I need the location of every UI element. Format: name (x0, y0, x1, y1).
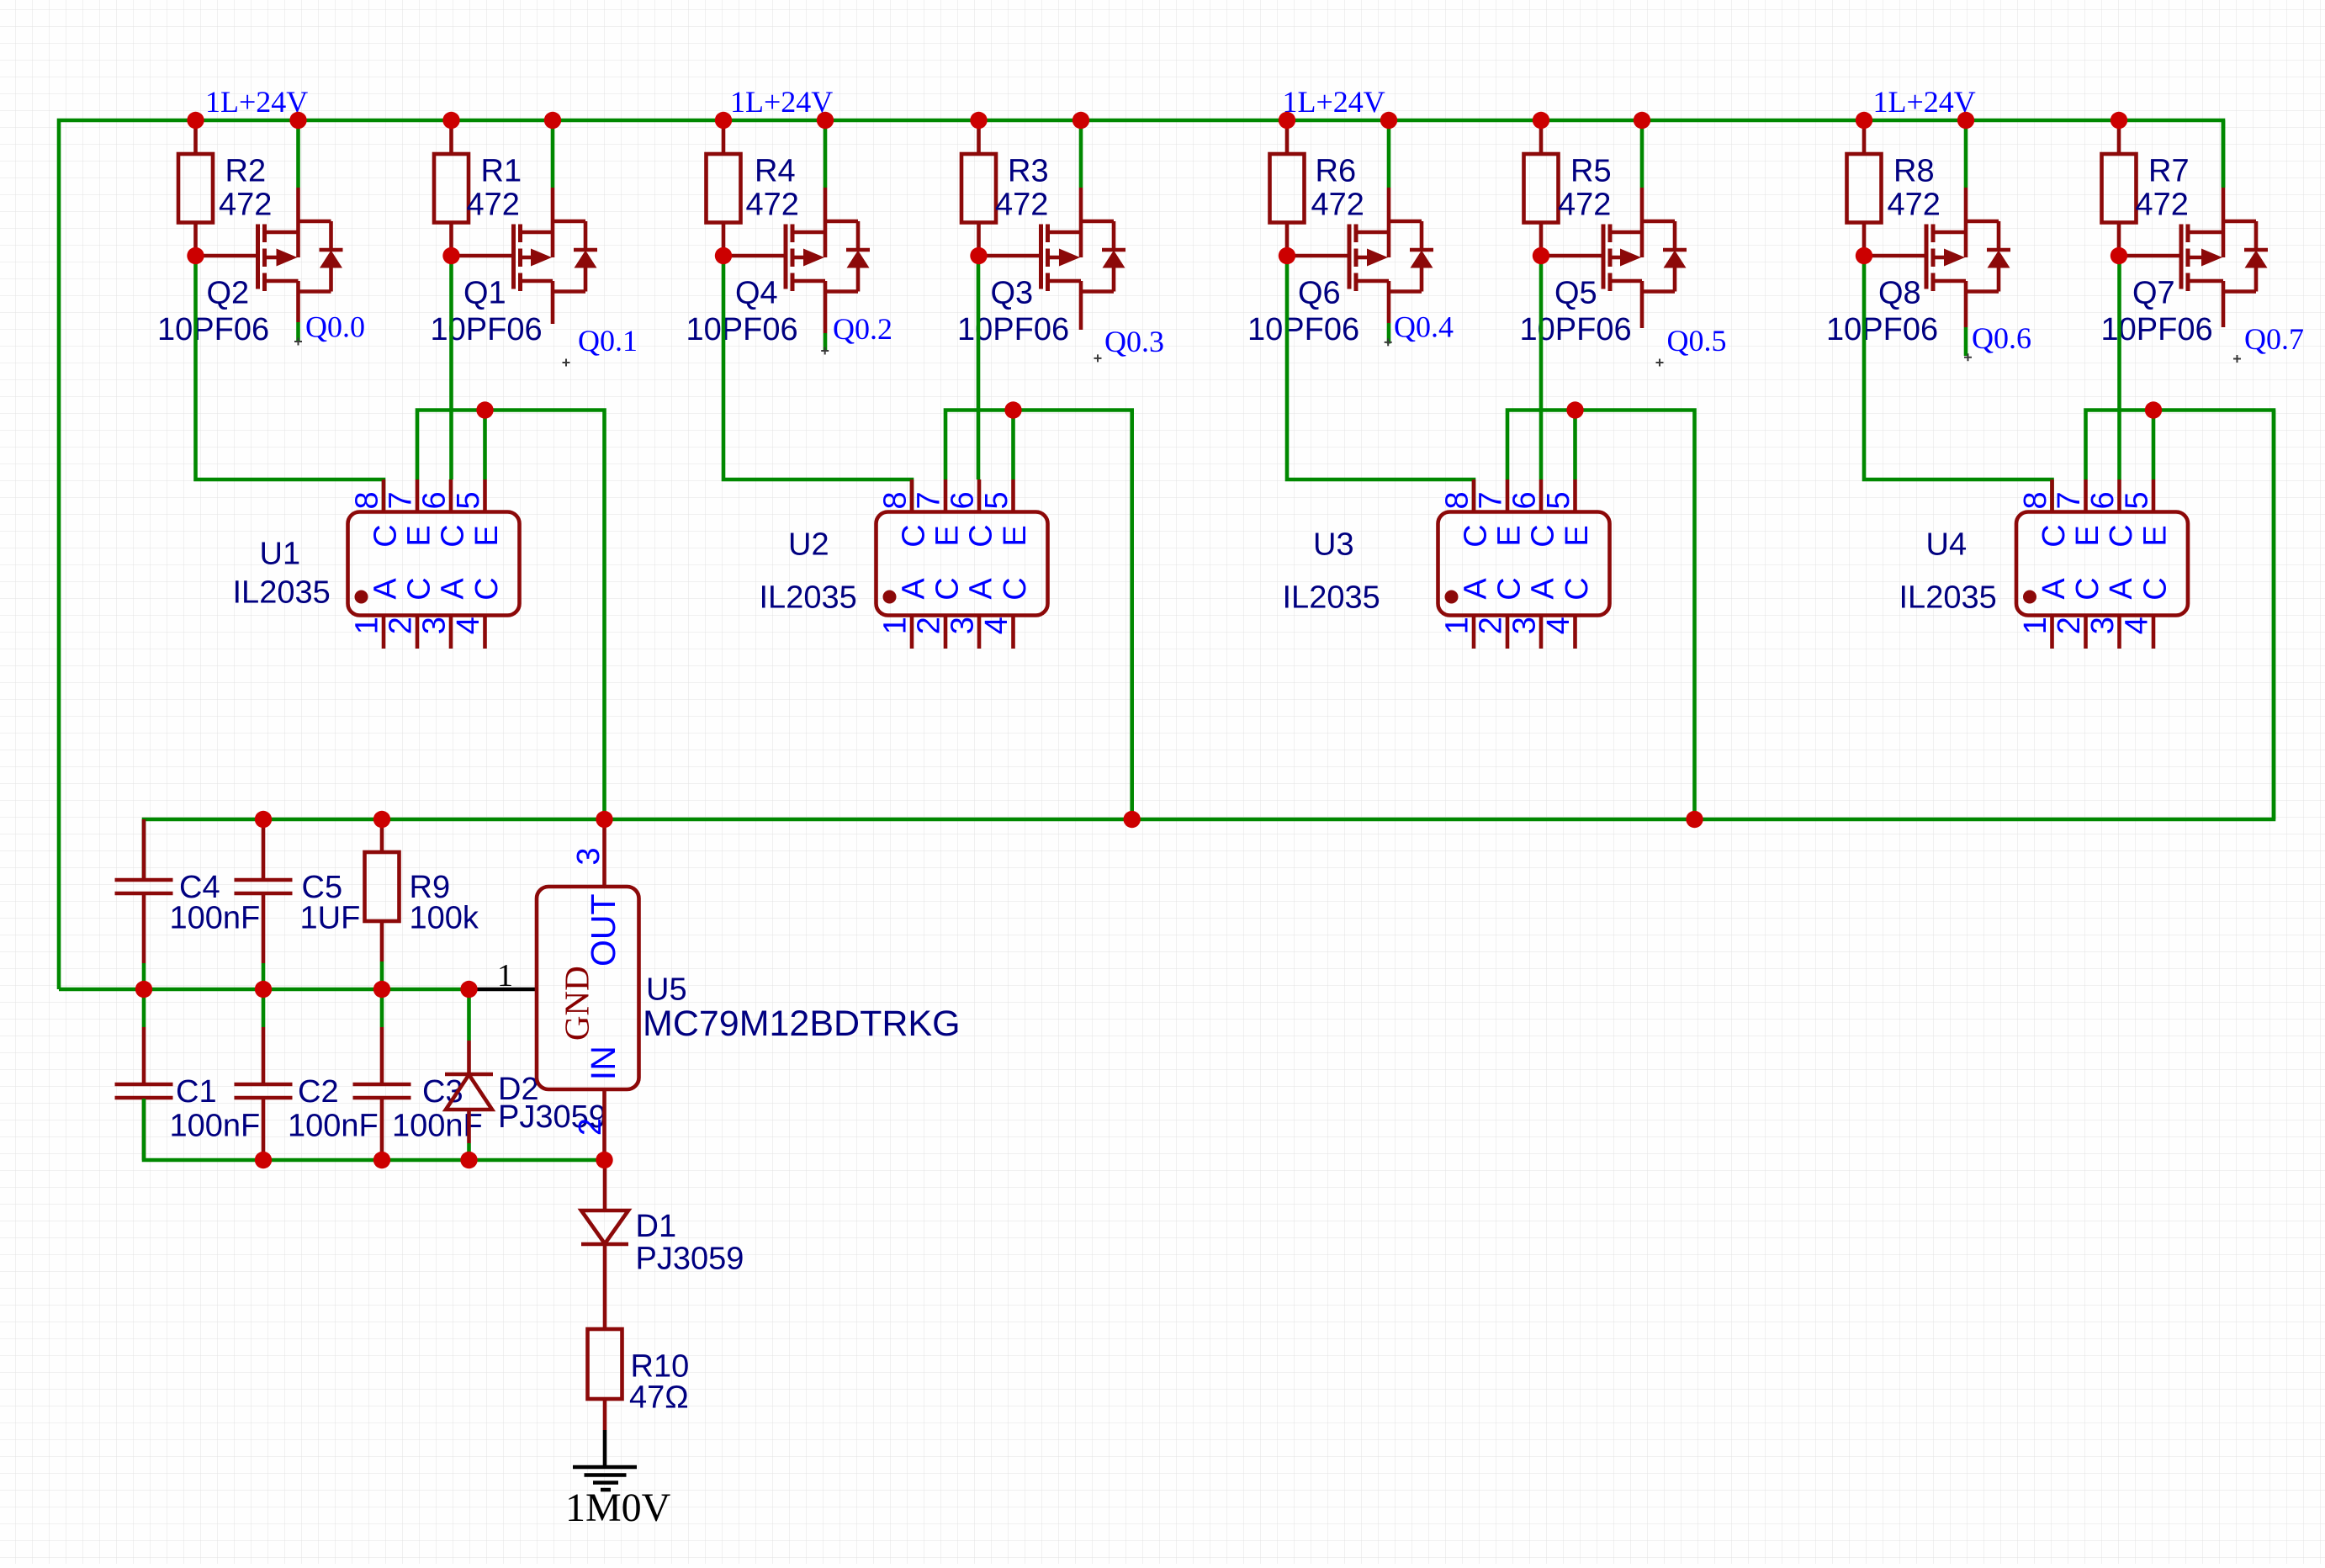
wire end marker Q0.7 (2233, 355, 2241, 363)
svg-text:Q0.2: Q0.2 (833, 312, 892, 346)
wire U5 pin1 rail (59, 988, 469, 992)
diode D2 (PJ3059) (445, 989, 493, 1160)
transistor Q2 (P-MOSFET 10PF06) (258, 188, 343, 322)
svg-text:C: C (929, 577, 965, 600)
pin numbers U3 top (1440, 491, 1577, 509)
svg-text:7: 7 (2052, 491, 2087, 509)
svg-text:C: C (1491, 577, 1527, 600)
svg-text:MC79M12BDTRKG: MC79M12BDTRKG (643, 1004, 961, 1044)
junction dot IN rail (596, 1152, 612, 1168)
wire drain Q2 (296, 120, 300, 188)
junction dot rail Q2 drain (289, 112, 306, 129)
svg-text:Q0.4: Q0.4 (1394, 310, 1454, 344)
svg-text:472: 472 (219, 188, 272, 223)
svg-text:472: 472 (1311, 188, 1364, 223)
svg-text:2: 2 (912, 617, 947, 634)
svg-text:7: 7 (912, 491, 947, 509)
capacitor C2 (235, 989, 293, 1160)
svg-text:Q5: Q5 (1554, 276, 1597, 311)
svg-text:1L+24V: 1L+24V (1873, 85, 1976, 119)
wire end marker Q0.5 (1656, 359, 1664, 367)
svg-text:C: C (2137, 577, 2173, 600)
svg-text:E: E (401, 525, 437, 546)
pin numbers U4 bottom (2018, 617, 2155, 634)
svg-text:A: A (2036, 578, 2072, 600)
junction dot gate Q1 (442, 247, 459, 264)
junction dot pin5 U3 (1566, 401, 1583, 418)
svg-text:E: E (469, 525, 505, 546)
svg-text:E: E (998, 525, 1033, 546)
wire OUT bottom rail (144, 411, 2274, 879)
pin names U3 bottom row A C A C (1458, 577, 1595, 600)
svg-text:GND: GND (558, 966, 596, 1041)
svg-text:A: A (896, 578, 931, 600)
svg-text:6: 6 (1507, 491, 1543, 509)
junction dot rail R3 (970, 112, 987, 129)
svg-text:10PF06: 10PF06 (1520, 312, 1632, 347)
svg-text:IL2035: IL2035 (1899, 580, 1997, 616)
svg-text:5: 5 (1541, 491, 1576, 509)
svg-text:C: C (2104, 524, 2139, 547)
wire gate U1 pin6 (449, 256, 453, 479)
svg-text:R7: R7 (2148, 154, 2190, 189)
junction dot gate Q2 (187, 247, 204, 264)
svg-text:10PF06: 10PF06 (431, 312, 543, 347)
svg-text:E: E (2137, 525, 2173, 546)
svg-text:100nF: 100nF (170, 901, 261, 936)
gate wire Q6 (1287, 254, 1349, 258)
svg-text:Q8: Q8 (1878, 276, 1921, 311)
wire drain Q3 (1079, 120, 1083, 188)
svg-text:3: 3 (417, 617, 453, 634)
svg-text:Q0.0: Q0.0 (305, 310, 365, 344)
junction dot rail R7 (2111, 112, 2127, 129)
gate wire Q8 (1864, 254, 1926, 258)
wire emitter bus U2 (945, 411, 1132, 820)
svg-text:4: 4 (451, 617, 486, 634)
transistor Q8 (P-MOSFET 10PF06) (1926, 188, 2010, 327)
optocoupler U3 (IL2035) (1438, 479, 1610, 649)
svg-text:C: C (368, 524, 403, 547)
wire stub net Q0.6 (1964, 327, 1968, 356)
svg-text:6: 6 (417, 491, 453, 509)
junction dot pin5 U2 (1004, 401, 1021, 418)
svg-text:7: 7 (384, 491, 419, 509)
svg-text:4: 4 (979, 617, 1014, 634)
wire stub net Q0.0 (296, 322, 300, 342)
ground symbol 1M0V (573, 1467, 637, 1490)
junction dot pin5 U1 (476, 401, 493, 418)
wire stub net Q0.2 (824, 333, 828, 350)
svg-text:E: E (1491, 525, 1527, 546)
pin names U4 bottom row A C A C (2036, 577, 2174, 600)
svg-text:C: C (1560, 577, 1595, 600)
svg-text:C2: C2 (298, 1074, 339, 1110)
wire gate U1 pin8 (196, 256, 384, 512)
svg-text:PJ3059: PJ3059 (636, 1242, 744, 1277)
wire black to ground (603, 1430, 607, 1467)
optocoupler U4 (IL2035) (2016, 479, 2188, 649)
svg-text:10PF06: 10PF06 (1247, 312, 1359, 347)
svg-text:2: 2 (573, 1118, 608, 1136)
svg-text:3: 3 (945, 617, 981, 634)
transistor Q3 (P-MOSFET 10PF06) (1041, 188, 1126, 330)
resistor R9 (365, 819, 400, 989)
svg-text:1: 1 (497, 958, 513, 993)
gate wire Q4 (723, 254, 786, 258)
wire emitter bus U3 (1507, 411, 1695, 820)
svg-text:472: 472 (746, 188, 799, 223)
junction dot gate Q4 (715, 247, 732, 264)
svg-text:R2: R2 (225, 154, 267, 189)
junction dot rail R1 (442, 112, 459, 129)
svg-text:6: 6 (2085, 491, 2121, 509)
gate wire Q1 (452, 254, 514, 258)
svg-text:3: 3 (571, 847, 606, 865)
resistor R5 (1524, 120, 1559, 256)
svg-text:Q0.6: Q0.6 (1972, 321, 2031, 355)
svg-text:47Ω: 47Ω (629, 1380, 689, 1416)
svg-text:C: C (2070, 577, 2105, 600)
transistor Q1 (P-MOSFET 10PF06) (514, 188, 598, 324)
wire gate U3 pin6 (1539, 256, 1544, 479)
svg-text:1: 1 (878, 617, 914, 634)
pin names U2 top row C E C E (896, 524, 1033, 547)
svg-text:8: 8 (878, 491, 914, 509)
junction dot U5 pin1 rail (460, 981, 477, 998)
svg-text:C: C (963, 524, 998, 547)
junction dot rail R4 (715, 112, 732, 129)
capacitor C1 (115, 989, 173, 1160)
svg-text:8: 8 (2018, 491, 2053, 509)
wire gate U3 pin8 (1287, 256, 1474, 512)
svg-text:472: 472 (1558, 188, 1611, 223)
diode D1 (PJ3059) (581, 1160, 628, 1329)
wire end marker Q0.4 (1385, 338, 1392, 346)
svg-text:A: A (1458, 578, 1493, 600)
junction dot OUT rail (255, 811, 272, 828)
pin numbers U2 top (878, 491, 1015, 509)
capacitor C3 (353, 989, 411, 1160)
pin numbers U2 bottom (878, 617, 1015, 634)
transistor Q5 (P-MOSFET 10PF06) (1603, 188, 1687, 328)
svg-text:Q0.7: Q0.7 (2244, 322, 2304, 356)
wire emitter bus U1 (417, 411, 605, 820)
svg-text:E: E (929, 525, 965, 546)
svg-text:2: 2 (1474, 617, 1509, 634)
svg-text:Q7: Q7 (2132, 276, 2175, 311)
gate wire Q3 (979, 254, 1041, 258)
svg-text:C: C (1525, 524, 1560, 547)
svg-text:5: 5 (451, 491, 486, 509)
svg-text:472: 472 (995, 188, 1048, 223)
svg-text:IL2035: IL2035 (233, 575, 331, 611)
svg-text:100nF: 100nF (288, 1109, 379, 1144)
svg-text:C: C (1458, 524, 1493, 547)
resistor R6 (1270, 120, 1305, 256)
svg-text:5: 5 (979, 491, 1014, 509)
svg-text:10PF06: 10PF06 (1826, 312, 1938, 347)
svg-text:1: 1 (2018, 617, 2053, 634)
wire gate U4 pin6 (2117, 256, 2121, 479)
svg-text:A: A (963, 578, 998, 600)
pin numbers U1 top (350, 491, 487, 509)
wire end marker Q0.2 (821, 347, 829, 355)
svg-text:C: C (896, 524, 931, 547)
svg-text:1: 1 (1440, 617, 1475, 634)
svg-text:R10: R10 (631, 1349, 690, 1385)
wire drain Q6 (1387, 120, 1391, 188)
capacitor C4 (115, 819, 173, 989)
pin names U2 bottom row A C A C (896, 577, 1033, 600)
wire end marker Q0.0 (294, 338, 302, 346)
resistor R7 (2102, 120, 2137, 256)
junction dot U5 pin1 rail (373, 981, 390, 998)
gate wire Q7 (2119, 254, 2181, 258)
svg-text:OUT: OUT (584, 893, 622, 967)
wire stub net Q0.4 (1387, 323, 1391, 344)
svg-text:C: C (2036, 524, 2072, 547)
junction dot rail Q3 drain (1072, 112, 1089, 129)
svg-text:Q2: Q2 (207, 276, 250, 311)
svg-text:5: 5 (2120, 491, 2155, 509)
svg-text:2: 2 (384, 617, 419, 634)
junction dot U5 pin1 rail (255, 981, 272, 998)
svg-text:Q1: Q1 (463, 276, 506, 311)
pin names U1 top row C E C E (368, 524, 505, 547)
svg-text:U2: U2 (788, 527, 829, 563)
junction dot rail R2 (187, 112, 204, 129)
pin names U1 bottom row A C A C (368, 577, 505, 600)
svg-text:4: 4 (2120, 617, 2155, 634)
svg-text:A: A (1525, 578, 1560, 600)
svg-text:1UF: 1UF (300, 901, 361, 936)
svg-text:R8: R8 (1893, 154, 1935, 189)
wire drain Q4 (824, 120, 828, 188)
pin numbers U3 bottom (1440, 617, 1577, 634)
svg-text:R1: R1 (481, 154, 522, 189)
wire end marker Q0.3 (1094, 354, 1102, 362)
svg-text:1: 1 (350, 617, 385, 634)
svg-text:R4: R4 (755, 154, 796, 189)
wire emitter pin5 U2 (1011, 411, 1015, 480)
svg-text:A: A (2104, 578, 2139, 600)
wire emitter pin5 U3 (1573, 411, 1577, 480)
wire emitter bus U4 (2086, 411, 2275, 820)
svg-text:4: 4 (1541, 617, 1576, 634)
regulator U5 (MC79M12BDTRKG) (537, 819, 639, 1160)
svg-text:A: A (435, 578, 470, 600)
svg-text:A: A (368, 578, 403, 600)
svg-text:Q0.1: Q0.1 (578, 324, 638, 358)
svg-text:10PF06: 10PF06 (957, 312, 1069, 347)
svg-text:472: 472 (2136, 188, 2189, 223)
resistor R3 (961, 120, 996, 256)
svg-text:C: C (469, 577, 505, 600)
svg-text:C1: C1 (176, 1074, 217, 1110)
svg-text:E: E (1560, 525, 1595, 546)
pin names U3 top row C E C E (1458, 524, 1595, 547)
junction dot rail Q5 drain (1634, 112, 1650, 129)
junction dot U5 pin1 rail (135, 981, 152, 998)
transistor Q6 (P-MOSFET 10PF06) (1349, 188, 1433, 323)
svg-text:10PF06: 10PF06 (157, 312, 269, 347)
junction dot OUT rail (596, 811, 612, 828)
svg-text:Q6: Q6 (1298, 276, 1341, 311)
svg-text:472: 472 (1888, 188, 1941, 223)
svg-text:1L+24V: 1L+24V (1283, 85, 1385, 119)
svg-text:IL2035: IL2035 (760, 580, 857, 616)
svg-text:R3: R3 (1008, 154, 1049, 189)
svg-text:10PF06: 10PF06 (686, 312, 798, 347)
junction dot IN rail (373, 1152, 390, 1168)
resistor R2 (178, 120, 213, 256)
svg-text:R5: R5 (1570, 154, 1612, 189)
transistor Q7 (P-MOSFET 10PF06) (2181, 188, 2268, 327)
svg-text:1L+24V: 1L+24V (205, 85, 308, 119)
svg-text:Q3: Q3 (991, 276, 1034, 311)
wire drain Q7 (2222, 120, 2226, 188)
svg-text:3: 3 (2085, 617, 2121, 634)
wire gate U2 pin8 (723, 256, 912, 512)
gate wire Q2 (196, 254, 258, 258)
svg-text:8: 8 (350, 491, 385, 509)
wire black U5 pin1 (469, 988, 538, 992)
junction dot rail Q1 drain (544, 112, 561, 129)
junction dot rail R6 (1279, 112, 1295, 129)
svg-text:6: 6 (945, 491, 981, 509)
junction dot OUT rail (373, 811, 390, 828)
junction dot rail R5 (1533, 112, 1549, 129)
svg-text:2: 2 (2052, 617, 2087, 634)
resistor R4 (707, 120, 741, 256)
svg-text:7: 7 (1474, 491, 1509, 509)
svg-text:3: 3 (1507, 617, 1543, 634)
wire IN bottom rail (144, 1099, 605, 1160)
wire drain Q8 (1964, 120, 1968, 188)
junction dot rail Q6 drain (1380, 112, 1397, 129)
resistor R1 (434, 120, 469, 256)
svg-text:C: C (998, 577, 1033, 600)
svg-text:100k: 100k (410, 901, 479, 936)
resistor R8 (1847, 120, 1882, 256)
wire end marker Q0.1 (563, 359, 570, 367)
svg-text:100nF: 100nF (170, 1109, 261, 1144)
junction dot IN rail (460, 1152, 477, 1168)
junction dot rail Q8 drain (1957, 112, 1974, 129)
capacitor C5 (235, 819, 293, 989)
svg-text:C: C (435, 524, 470, 547)
wire emitter pin5 U1 (483, 411, 487, 480)
svg-text:8: 8 (1440, 491, 1475, 509)
resistor R10 (588, 1329, 622, 1430)
svg-text:1M0V: 1M0V (565, 1486, 671, 1530)
optocoupler U2 (IL2035) (877, 479, 1048, 649)
gate wire Q5 (1541, 254, 1603, 258)
wire gate U2 pin6 (977, 256, 981, 479)
junction dot IN rail (255, 1152, 272, 1168)
junction dot gate Q7 (2111, 247, 2127, 264)
pin numbers U4 top (2018, 491, 2155, 509)
junction dot OUT rail (1124, 811, 1141, 828)
svg-text:U5: U5 (646, 972, 687, 1008)
optocoupler U1 (IL2035) (348, 479, 520, 649)
wire 1L+24V top rail (59, 120, 2223, 989)
svg-text:U3: U3 (1313, 527, 1354, 563)
svg-text:IN: IN (584, 1046, 622, 1080)
svg-text:Q0.3: Q0.3 (1104, 325, 1164, 358)
junction dot pin5 U4 (2145, 401, 2162, 418)
svg-text:D1: D1 (636, 1209, 677, 1244)
junction dot gate Q6 (1279, 247, 1295, 264)
pin numbers U1 bottom (350, 617, 487, 634)
junction dot rail R8 (1856, 112, 1872, 129)
svg-text:Q0.5: Q0.5 (1667, 324, 1727, 358)
wire drain Q1 (551, 120, 555, 188)
junction dot rail Q4 drain (817, 112, 834, 129)
junction dot gate Q3 (970, 247, 987, 264)
svg-text:472: 472 (467, 188, 520, 223)
svg-text:E: E (2070, 525, 2105, 546)
junction dot OUT rail (1686, 811, 1703, 828)
svg-text:U4: U4 (1926, 527, 1968, 563)
junction dot gate Q8 (1856, 247, 1872, 264)
wire drain Q5 (1640, 120, 1644, 188)
svg-text:C: C (401, 577, 437, 600)
svg-text:Q4: Q4 (735, 276, 778, 311)
svg-text:IL2035: IL2035 (1283, 580, 1380, 616)
junction dot gate Q5 (1533, 247, 1549, 264)
wire gate U4 pin8 (1864, 256, 2052, 512)
transistor Q4 (P-MOSFET 10PF06) (786, 188, 870, 333)
svg-text:1L+24V: 1L+24V (730, 85, 833, 119)
svg-text:U1: U1 (260, 537, 301, 572)
wire end marker Q0.6 (1964, 353, 1972, 361)
svg-text:R6: R6 (1316, 154, 1357, 189)
pin names U4 top row C E C E (2036, 524, 2174, 547)
wire emitter pin5 U4 (2152, 411, 2156, 480)
